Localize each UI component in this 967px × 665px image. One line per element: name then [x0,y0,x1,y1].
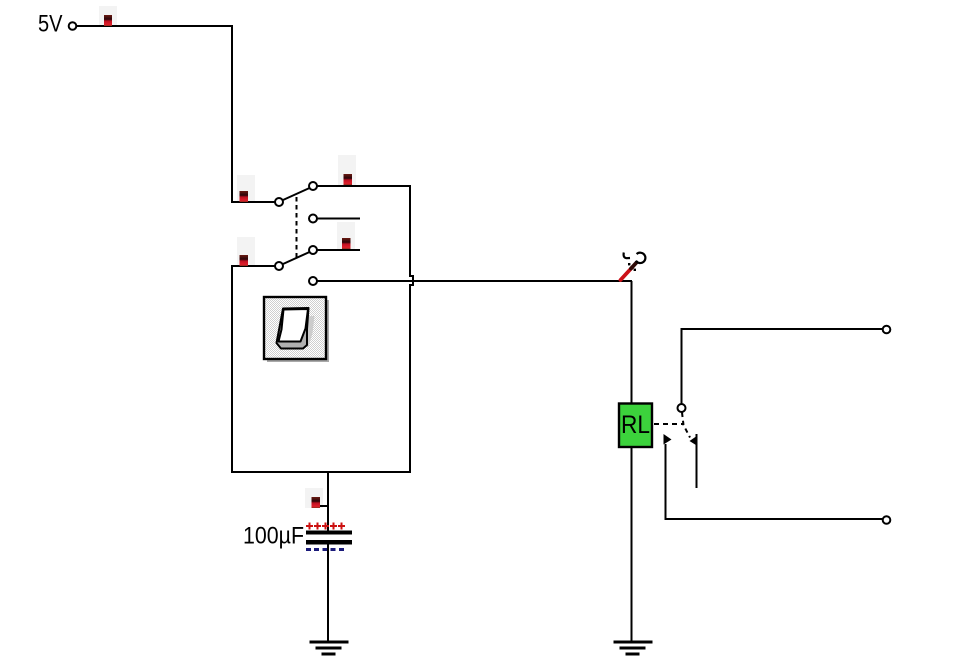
DPDT switch pole 2 common contact [275,262,283,270]
DPDT mechanical linkage (dashed) [296,197,298,258]
voltage marker on throw 2a wire [342,238,351,249]
wire from 5V terminal to top-right corner [77,25,233,27]
wire from throw 2b to relay coil corner [317,280,632,282]
wire vertical from 5V down to switch pole 1 [231,25,233,202]
wire from relay coil to ground [631,447,633,642]
ground (relay coil) [614,642,653,654]
relay linkage (dashed) from coil to contact [654,423,684,425]
DPDT switch pole 1 blade (closed to upper throw) [283,188,310,200]
wire from capacitor to ground [327,544,329,642]
svg-text:RL: RL [621,411,650,439]
stub wire from throw 2a [317,249,360,251]
DPDT switch pole 1 common contact [275,198,283,206]
voltage marker on 5V wire [104,15,112,26]
terminal output B [883,516,891,524]
capacitor C1 polarity plus marks [306,523,345,530]
wire to DPDT pole 1 common [231,201,275,203]
DPDT switch throw 1b contact [309,215,317,223]
DPDT switch throw 2a contact [309,246,317,254]
wire bottom rail [231,471,411,473]
terminal 5V input pin [69,22,77,30]
wire to DPDT pole 2 common [231,265,275,267]
DPDT switch throw 2b contact [309,277,317,285]
wire from throw 1a to right riser [317,185,411,187]
stub wire from throw 1b [317,218,360,220]
capacitor C1 polarity minus marks (blue dashed) [306,548,345,551]
voltage marker on throw 1a wire [344,174,353,185]
svg-text:100µF: 100µF [243,523,304,550]
relay contact common pin [678,404,686,412]
wire from bottom rail down to capacitor [327,471,329,531]
capacitor C1 bottom plate [306,540,352,545]
voltage marker at capacitor (with stub) [312,497,329,508]
faint marker halos (background) [99,6,356,508]
wire right riser with crossover jog [410,186,413,473]
wire from contact common up to top rail [681,329,683,404]
wire vertical pole 2 riser down to bottom rail [231,265,233,473]
probe icon (pointer touching wire) [621,253,646,281]
svg-text:5V: 5V [38,11,63,38]
relay contact right throw (arrow) [690,434,698,488]
voltage marker on pole 2 wire [240,255,249,266]
wire corner down to relay coil [631,281,633,404]
relay contact blade (dashed, resting on right throw) [682,413,690,438]
terminal output A [883,326,891,334]
rocker switch icon [264,297,329,362]
wire from left throw to output terminal B [665,518,884,520]
wire top rail to output terminal A [681,328,884,330]
capacitor C1 top plate [306,531,352,535]
DPDT switch throw 1a contact [309,182,317,190]
ground (capacitor) [310,642,349,654]
DPDT switch pole 2 blade (closed to upper throw) [283,252,310,264]
voltage marker on pole 1 wire [240,191,249,202]
relay contact left throw (arrow) [664,434,672,520]
relay coil RL (green box) [619,404,652,448]
